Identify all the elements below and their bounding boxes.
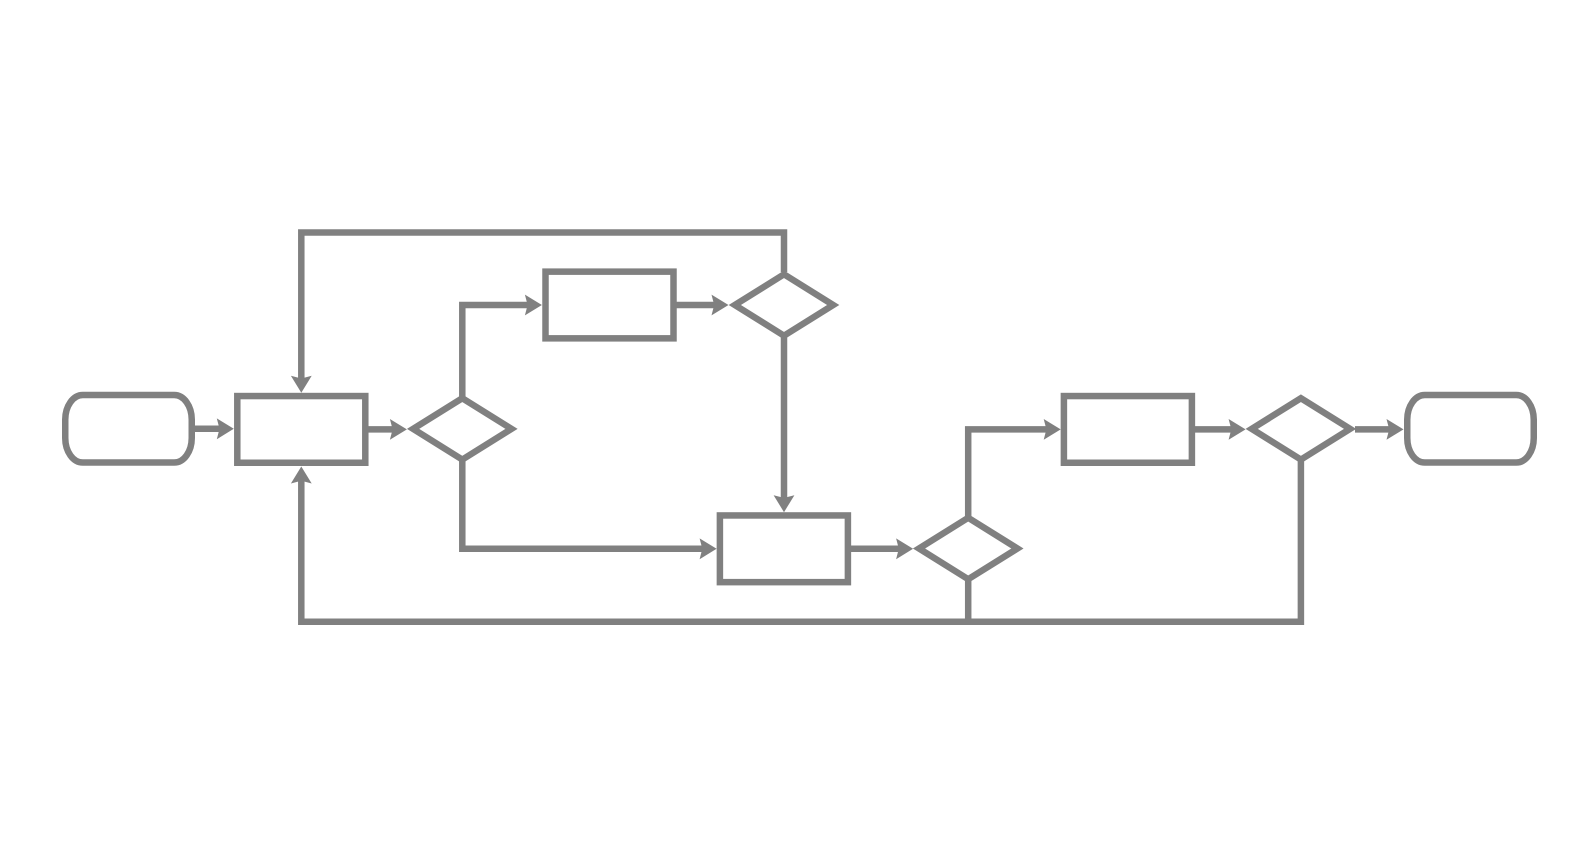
arrowhead into P3 top [774,495,795,512]
arrowhead into P1 bottom [291,467,312,484]
wire D1 bottom to P3 [462,459,703,549]
wire start to P1 [195,426,221,433]
wire D3 bottom junction to feedback line [965,579,972,622]
wire P4 to D4 [1194,426,1233,433]
decision D2 [735,274,833,335]
wire D3 top to P4 [968,429,1047,518]
process box P2 [546,272,674,339]
wire D4 bottom feedback to P1 bottom [301,460,1301,622]
arrowhead into P1 top [291,376,312,393]
arrowhead into P4 left [1044,419,1061,440]
process box P4 [1064,396,1192,463]
wire P2 to D2 [676,302,715,309]
wire P1 to D1 [366,426,394,433]
arrowhead into end terminator [1387,419,1404,440]
wire D4 to end terminator [1355,426,1390,433]
process box P1 [237,396,365,463]
decision D4 [1252,398,1350,459]
arrowhead into P3 left [700,538,717,559]
start terminator (stadium) [65,395,192,463]
process box P3 [720,515,848,582]
wire D2 bottom to P3 top [781,336,788,499]
arrowhead into P1 left [217,418,234,439]
wire D1 top to P2 [462,305,528,399]
wire D2 top feedback to P1 top [301,233,784,380]
decision D1 [413,398,511,459]
arrowhead into D4 left [1229,419,1246,440]
arrowhead into P2 left [525,295,542,316]
wire P3 to D3 [850,546,900,553]
arrowhead into D1 left [390,419,407,440]
end terminator (stadium) [1407,395,1534,463]
decision D3 [919,518,1017,579]
arrowhead into D3 left [896,538,913,559]
arrowhead into D2 left [712,295,729,316]
